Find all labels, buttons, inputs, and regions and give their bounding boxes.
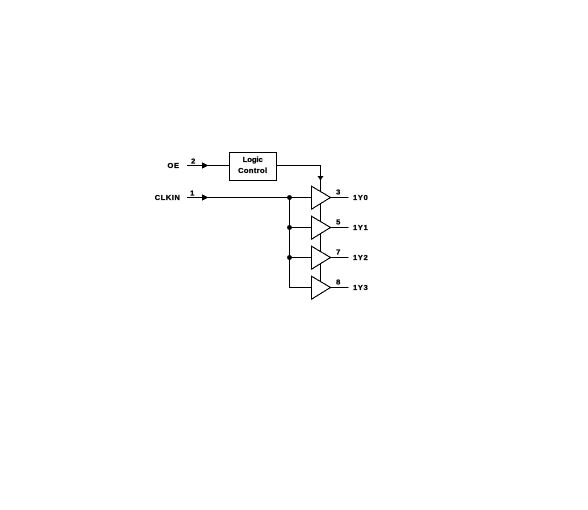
wire CLKIN input: [187, 197, 312, 199]
svg-text:3: 3: [336, 187, 340, 196]
wire output 1Y1: [331, 227, 349, 229]
svg-text:Logic: Logic: [243, 155, 263, 164]
buffer U2C: [312, 246, 331, 269]
junction node 3: [287, 255, 292, 260]
svg-text:1Y1: 1Y1: [353, 223, 368, 232]
svg-text:2: 2: [191, 156, 195, 165]
svg-text:OE: OE: [168, 161, 180, 170]
buffer U2A: [312, 186, 331, 209]
svg-text:8: 8: [336, 277, 340, 286]
wire enable T2-T3: [320, 234, 322, 252]
wire output 1Y0: [331, 197, 349, 199]
svg-text:1Y0: 1Y0: [353, 193, 368, 202]
wire enable T1-T2: [320, 204, 322, 222]
svg-text:7: 7: [336, 247, 340, 256]
wire vertical bus: [290, 198, 312, 288]
arrowhead enable down: [317, 176, 324, 181]
svg-text:5: 5: [336, 217, 340, 226]
wire stub to buffer 2: [290, 227, 312, 229]
buffer U2D: [312, 276, 331, 299]
wire stub to buffer 3: [290, 257, 312, 259]
junction node 1: [287, 195, 292, 200]
wire output 1Y2: [331, 257, 349, 259]
wire OE input: [187, 165, 230, 167]
wire enable T3-T4: [320, 264, 322, 282]
svg-text:1Y3: 1Y3: [353, 283, 368, 292]
buffer U2B: [312, 216, 331, 239]
svg-text:1Y2: 1Y2: [353, 253, 368, 262]
wire output 1Y3: [331, 287, 349, 289]
svg-text:Control: Control: [238, 166, 267, 175]
wire logic-control to enable line: [277, 166, 321, 192]
svg-text:1: 1: [190, 188, 194, 197]
logic control box U1: [230, 153, 277, 181]
arrowhead OE: [202, 162, 209, 168]
svg-text:CLKIN: CLKIN: [155, 193, 181, 202]
junction node 2: [287, 225, 292, 230]
arrowhead CLKIN: [202, 194, 209, 200]
